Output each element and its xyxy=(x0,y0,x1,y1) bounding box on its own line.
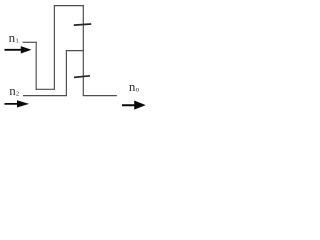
wire bottom of first U xyxy=(36,88,55,90)
output arrow no xyxy=(122,101,146,110)
input arrow n1 xyxy=(5,46,32,53)
wire top horizontal xyxy=(54,5,84,7)
svg-text:no: no xyxy=(129,79,140,94)
input arrow n2 xyxy=(5,100,30,107)
svg-text:n2: n2 xyxy=(9,83,19,98)
svg-text:n1: n1 xyxy=(9,30,19,45)
wire vertical down from n1 xyxy=(35,42,37,90)
wire no output horizontal xyxy=(83,95,117,97)
wire n2 input horizontal xyxy=(23,95,67,97)
wire right vertical main xyxy=(82,5,84,96)
wire n1 input horizontal xyxy=(23,41,37,43)
wire branch horizontal xyxy=(66,50,84,52)
junction tick 2 xyxy=(74,76,90,78)
wire vertical up middle xyxy=(53,5,55,90)
wire vertical from branch down xyxy=(65,50,67,96)
junction tick 1 xyxy=(74,24,91,25)
